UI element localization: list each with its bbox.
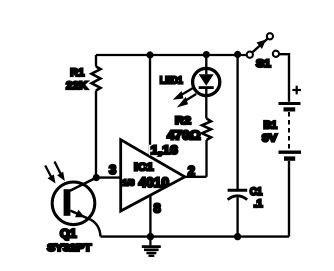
wire: battery - terminal to ground rail <box>288 161 290 237</box>
svg-text:R1: R1 <box>70 67 84 79</box>
LED1 emission arrows <box>173 88 196 108</box>
svg-text:C1: C1 <box>250 186 262 198</box>
wire: IC1 pin 8 to ground rail <box>149 195 151 236</box>
svg-text:LED1: LED1 <box>160 75 183 87</box>
wire: R1 bottom lead down to node A <box>95 91 97 178</box>
svg-text:S1: S1 <box>256 58 271 70</box>
battery B1 <box>279 104 302 159</box>
phototransistor Q1 <box>52 178 96 225</box>
wire: R1 top lead <box>95 55 97 67</box>
junction dot: rail / C1 <box>234 51 241 58</box>
svg-text:SY32PT: SY32PT <box>47 242 92 254</box>
svg-text:8: 8 <box>154 201 161 216</box>
svg-text:4010: 4010 <box>139 175 170 190</box>
buffer IC1 (1/6 4010) triangle <box>121 140 185 211</box>
junction dot: rail / IC1 pins 1,16 <box>146 51 153 58</box>
svg-text:IC1: IC1 <box>134 162 154 174</box>
resistor R2 <box>202 119 211 141</box>
Q1 light input arrows <box>45 162 65 184</box>
wire: ground rail (bottom) <box>101 235 290 237</box>
wire: top rail to LED1 anode <box>205 55 207 74</box>
wire: rail down to C1 <box>236 55 238 189</box>
svg-text:B1: B1 <box>264 120 278 132</box>
wire: top supply rail <box>96 54 247 56</box>
svg-text:470Ω: 470Ω <box>167 128 201 142</box>
label IC1 value 1/6 4010 <box>123 175 170 190</box>
svg-text:.1: .1 <box>254 198 263 210</box>
wire: S1 to battery + terminal <box>279 54 289 102</box>
wire: C1 to ground rail <box>236 197 238 236</box>
svg-text:3: 3 <box>109 162 116 177</box>
wire: node A to IC1 pin 3 <box>96 176 120 178</box>
svg-text:1/6: 1/6 <box>123 178 135 188</box>
svg-text:Q1: Q1 <box>60 229 77 241</box>
wire: IC1 pin 2 output to R2 branch <box>185 176 207 178</box>
ground symbol <box>142 237 161 256</box>
capacitor C1 <box>228 190 248 199</box>
junction dot: C1 / ground rail <box>234 233 241 240</box>
wire: Q1 emitter to ground rail <box>91 220 101 237</box>
junction dot: pin 8 wire / ground rail <box>147 233 154 240</box>
wire: R2 bottom lead <box>205 140 207 177</box>
resistor R1 <box>92 67 101 91</box>
LED1 <box>193 68 220 95</box>
junction dot: rail / LED1 anode <box>203 51 210 58</box>
svg-text:9V: 9V <box>262 133 278 145</box>
label pins 1,16 <box>149 143 179 157</box>
wire: R2 top lead to LED1 cathode <box>205 89 207 119</box>
label battery + polarity <box>292 86 301 95</box>
wire: IC1 pins 1,16 to supply rail <box>149 55 151 157</box>
svg-text:R2: R2 <box>175 115 191 127</box>
svg-text:1,16: 1,16 <box>151 143 178 157</box>
node A junction dot <box>93 174 100 181</box>
svg-text:22K: 22K <box>66 80 88 92</box>
switch S1 <box>247 33 279 58</box>
